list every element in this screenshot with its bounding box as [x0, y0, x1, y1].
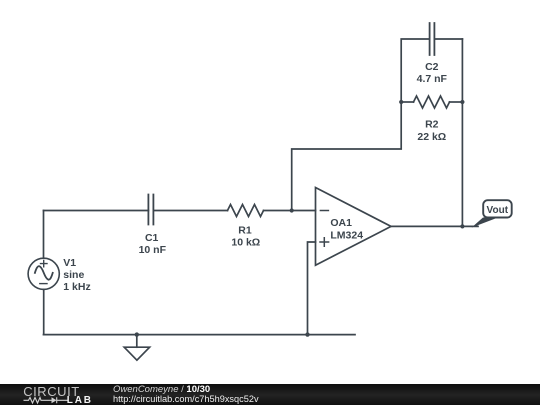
svg-text:C1: C1 — [145, 232, 159, 244]
svg-text:10 kΩ: 10 kΩ — [231, 237, 260, 249]
svg-text:OA1: OA1 — [330, 217, 352, 229]
svg-text:C2: C2 — [425, 61, 439, 73]
svg-text:10 nF: 10 nF — [139, 244, 167, 256]
svg-text:22 kΩ: 22 kΩ — [417, 131, 446, 143]
svg-text:4.7 nF: 4.7 nF — [417, 73, 448, 85]
svg-text:LM324: LM324 — [330, 230, 363, 242]
svg-text:Vout: Vout — [487, 205, 509, 216]
svg-text:sine: sine — [63, 269, 84, 281]
svg-text:R1: R1 — [238, 225, 252, 237]
svg-text:1 kHz: 1 kHz — [63, 281, 90, 293]
svg-text:R2: R2 — [425, 119, 439, 131]
svg-text:V1: V1 — [63, 257, 76, 269]
